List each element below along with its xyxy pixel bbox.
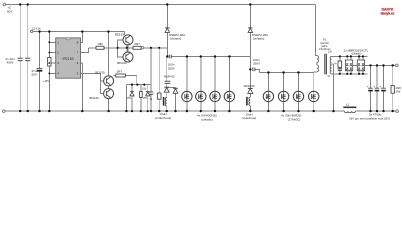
svg-text:15V: 15V (143, 97, 148, 100)
resistor R2 13R body (96, 46, 104, 49)
wire diode drop D7 (267, 73, 269, 112)
diode D7 circle (263, 91, 273, 101)
capacitor C9 4700u (381, 87, 386, 89)
node dots gate line (117, 47, 119, 49)
wire rectifier stubs U2 (347, 56, 351, 73)
svg-text:2R7: 2R7 (117, 70, 123, 74)
transformer Tr2 winding (165, 98, 166, 106)
wire lower pair to ground (108, 99, 110, 112)
svg-text:BD140: BD140 (117, 61, 127, 65)
wire collector drop upper pair (123, 32, 125, 35)
svg-text:(vzduchova): (vzduchova) (242, 116, 257, 120)
capacitor C1 plates (18, 58, 23, 60)
terminal input plus (3, 3, 6, 6)
wire vcc bus (33, 31, 124, 33)
svg-text:16V (po serii paralelne max 20: 16V (po serii paralelne max 20V) (349, 116, 390, 120)
svg-text:BD140: BD140 (90, 96, 100, 100)
inductor L1 (343, 107, 356, 112)
terminal output plus (396, 64, 399, 67)
capacitor C7 4700u (368, 87, 373, 89)
wire diode drop D10 (314, 72, 317, 111)
IC U1 IR2153 (56, 38, 81, 78)
diode D8 circle (278, 91, 288, 101)
svg-text:400V: 400V (7, 61, 14, 65)
svg-text:BD139: BD139 (95, 71, 105, 75)
svg-text:IR2153: IR2153 (63, 57, 74, 61)
zener D5 15V (130, 92, 134, 96)
svg-text:2W: 2W (396, 89, 401, 93)
svg-text:MUR415: MUR415 (164, 75, 175, 79)
svg-text:+: + (373, 85, 375, 89)
wire lower gate line (114, 76, 137, 85)
svg-text:+: + (380, 85, 382, 89)
wire zener D6 vertical (147, 85, 149, 112)
zener D6 15V (146, 92, 150, 96)
wire rectifier stubs U3 (359, 56, 363, 73)
wire bridge mid bus (171, 56, 250, 58)
wire right snubber link (255, 69, 260, 72)
transistor Q4 BD140 circle (104, 89, 114, 99)
wire output cap C9 (383, 65, 385, 111)
transistor Q6 circle (196, 91, 206, 101)
wire elcap 47u vertical (39, 32, 41, 112)
svg-text:13R: 13R (97, 42, 103, 46)
svg-text:(chladic): (chladic) (253, 37, 264, 41)
wire drop to Tr1 primary (315, 5, 317, 56)
wire input cap 1 vertical (19, 5, 21, 112)
svg-text:(vzduchova): (vzduchova) (155, 116, 171, 120)
wire output cap C7 (370, 65, 372, 111)
capacitor C11 plates (165, 81, 171, 83)
node dots rectifier bottom (339, 73, 341, 75)
rectifier U3 MBR20100CTL (357, 60, 364, 71)
diode D1 DSEP upper left (165, 27, 169, 29)
wire lower pair middle (108, 86, 110, 89)
transistor Q8 circle (224, 91, 234, 101)
resistor R3 2R7 body (133, 46, 141, 49)
node dots bridge bus (186, 55, 188, 57)
svg-text:+15V: +15V (43, 79, 50, 83)
wire diode drop D8 (283, 73, 285, 112)
svg-text:4z: 4z (334, 63, 336, 65)
wire diode D3 vertical (167, 87, 176, 111)
wire Tr2 primary feed (166, 57, 168, 112)
svg-text:danyk.cz: danyk.cz (381, 11, 395, 15)
wire collector drop lower pair (107, 32, 109, 76)
wire bleeder R8 (392, 65, 394, 111)
diode D10 circle (309, 91, 319, 101)
diode D3 MUR415 left (173, 87, 178, 89)
wire clamp bus (260, 72, 314, 74)
node dots rectifier top (339, 55, 341, 57)
output capacitors (368, 86, 394, 94)
transistor Q2 BD140 circle (123, 52, 133, 62)
node dots bottom rail (19, 110, 21, 112)
node dot cap C6 (249, 68, 251, 70)
svg-text:2R7: 2R7 (134, 42, 140, 46)
wire IC left pin stubs (49, 42, 55, 73)
terminal input minus (3, 110, 6, 113)
terminal gate connector (141, 47, 143, 49)
node dots ic left (48, 41, 50, 43)
inductor L3 winding (249, 97, 250, 105)
terminal output minus (396, 110, 399, 113)
node dot cap C4 (166, 55, 168, 57)
wire upper pair middle (127, 45, 129, 52)
diode D11 MUR415 right (248, 87, 253, 89)
svg-text:(chladic): (chladic) (170, 37, 181, 41)
transformer Tr2 core (163, 97, 165, 106)
wire Tr1 secondary top lead (332, 55, 368, 57)
wire upper pair emitters (126, 45, 128, 53)
watermark danyk (381, 7, 395, 15)
power mosfets group A (182, 91, 235, 101)
svg-text:(chladic): (chladic) (352, 51, 362, 55)
wire upper gate line (89, 47, 168, 49)
wire bottom rail (5, 110, 396, 112)
wire mosfet drop Q7 (214, 57, 216, 112)
transistor Q5 circle (182, 91, 192, 101)
snubber resistor R7 (338, 61, 342, 70)
svg-text:15V: 15V (127, 97, 132, 100)
svg-text:L1: L1 (346, 103, 350, 107)
rectifier U2 MBR20100CTL (345, 60, 352, 71)
transformer Tr1 (317, 54, 332, 75)
capacitor C6 100n plates (253, 68, 255, 72)
wire input cap 2 vertical (27, 5, 29, 112)
svg-text:1z5: 1z5 (328, 50, 333, 53)
svg-text:250V: 250V (253, 62, 260, 66)
capacitor C8 4700u (375, 87, 380, 89)
wire upper pair bases (118, 40, 123, 57)
wire mosfet drop Q6 (200, 57, 202, 112)
resistor R8 10R body (391, 86, 394, 94)
transistor Q7 circle (210, 91, 220, 101)
clamp diodes group B (263, 91, 319, 101)
wire lower pair bases (100, 73, 103, 93)
node dots vcc bus (38, 30, 40, 32)
wire IC pin6 stub (81, 63, 83, 111)
capacitor C2 plates (25, 58, 30, 60)
diode D9 circle (293, 91, 303, 101)
wire IC pin5 to bases (81, 72, 101, 74)
resistor R9 body (140, 92, 143, 98)
resistor R4 2R7 body (116, 74, 126, 77)
snubber capacitor C10 (338, 69, 342, 71)
svg-text:1,2,4,5a: 1,2,4,5a (32, 28, 41, 31)
capacitor C4 100n plates (169, 55, 171, 59)
svg-text:BD139: BD139 (115, 33, 125, 37)
wire output bus (353, 64, 396, 66)
diode D4 at Tr2 (164, 86, 169, 88)
terminals (3, 3, 399, 112)
wire gate cluster bus (126, 84, 151, 86)
svg-text:25V: 25V (32, 72, 37, 76)
transistor Q1 BD139 circle (123, 35, 133, 45)
svg-text:MUR415: MUR415 (244, 84, 255, 88)
wire top bus (6, 4, 316, 6)
wire pin8 to vcc bus (81, 32, 83, 43)
wire Tr1 center tap (332, 64, 334, 111)
wire resistor R1 vertical (48, 32, 50, 112)
resistor R1 body (48, 58, 51, 67)
svg-text:250V: 250V (168, 66, 175, 70)
svg-text:(chladic): (chladic) (201, 117, 212, 121)
wire resistor R9 vertical (140, 85, 142, 112)
wire cluster drop a (125, 85, 127, 112)
node dots top bus (19, 3, 21, 5)
wire right leg vertical (249, 5, 251, 112)
wire diode drop D9 (298, 73, 300, 112)
node dots output bus (369, 64, 371, 66)
wire left leg vertical (166, 5, 168, 57)
svg-text:+: + (367, 85, 369, 89)
node dots cluster (131, 84, 133, 86)
diode D2 DSEP upper right (248, 27, 252, 29)
wire Tr1 secondary bottom lead (332, 73, 368, 75)
wire mosfet drop Q8 (228, 57, 230, 112)
capacitor C3 electrolytic 47u (37, 68, 43, 70)
wire mosfet drop Q5 (186, 57, 188, 112)
inductor L3 core (246, 97, 248, 106)
wire snubber R7 vertical (339, 56, 341, 73)
node dots clamp bus (267, 71, 269, 73)
capacitor C5 plates (149, 92, 153, 94)
wire output cap C8 (376, 65, 378, 111)
resistor R6 body (157, 93, 161, 99)
svg-text:(17A60C): (17A60C) (288, 117, 301, 121)
wire IC pin7 stub (81, 48, 89, 53)
wire zener D5 vertical (131, 85, 133, 112)
transistor Q3 BD139 circle (104, 76, 114, 86)
svg-text:10uH: 10uH (245, 112, 252, 116)
wire resistor R6 vertical (158, 48, 160, 111)
terminal aux (30, 30, 32, 32)
svg-text:60V: 60V (7, 9, 12, 13)
wire cap C5 vertical (150, 48, 152, 111)
